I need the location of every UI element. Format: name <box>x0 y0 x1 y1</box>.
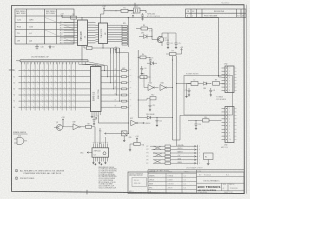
column driver verticals right of U3 <box>104 48 120 102</box>
+5V flag left mid <box>61 117 65 127</box>
wires CN3 to signal rows <box>150 122 155 156</box>
+5V rail for RP2 <box>114 47 129 133</box>
transistor Q1 <box>152 33 169 46</box>
connector CN1 keyboard cable bus <box>16 56 88 62</box>
+5V distribution wire top <box>62 17 219 18</box>
U1 left pins / address bus lines <box>60 21 78 44</box>
wire U3 P27 down <box>97 115 99 123</box>
U3 bottom pins <box>92 112 100 116</box>
transistor Q2 spare <box>54 122 63 131</box>
capacitor C11 <box>148 100 155 111</box>
wire U1 bottom to keyboard bus junction <box>81 46 82 61</box>
resistor R4 <box>138 54 154 59</box>
connector CN2 <box>222 64 237 93</box>
wire crystal to IC2 clock <box>128 11 146 14</box>
U2 right pins to resistor pack RP1 <box>108 25 123 41</box>
capacitor C10 <box>194 120 201 130</box>
U4 top pins <box>93 142 108 148</box>
inverter U5E <box>63 122 86 130</box>
note 1 <box>15 169 65 175</box>
wire net to inverters <box>144 77 145 88</box>
resistor R13 inline <box>84 46 92 50</box>
diode CR5 to ground <box>122 131 132 142</box>
wire rail to U1 pin 1 <box>81 18 83 20</box>
vertical net line C <box>176 56 178 146</box>
resistor pack RP1 pull-ups <box>122 23 128 45</box>
wire to U4 clock <box>94 127 96 144</box>
wire enclosure input <box>176 83 211 98</box>
diode CR2 <box>147 60 157 65</box>
+5V flag at U3 bottom <box>94 115 98 119</box>
wire +5V to R1 <box>104 10 117 11</box>
shield terminal E1 <box>204 153 214 165</box>
key matrix row wires to U3 <box>19 71 91 108</box>
spare gate U5D <box>14 135 27 144</box>
capacitor C7 at U3 bottom <box>92 115 95 125</box>
wire U3 P27 row <box>98 122 129 123</box>
U1 right pins <box>88 23 96 43</box>
title block approvals grid <box>148 169 197 193</box>
spare gates label <box>13 131 28 134</box>
U3 right pins to resistor pack RP2 <box>101 69 122 108</box>
U4 bottom pins with grounds <box>92 157 107 165</box>
capacitor C20 below table <box>35 45 43 50</box>
reference designator table (last used / not used) <box>15 9 74 44</box>
diode CR6 <box>203 82 210 90</box>
revision block (top right) <box>186 3 247 18</box>
fan-out wires CN1 to column verticals <box>85 62 107 67</box>
wire net B to CN3 <box>173 115 222 140</box>
wire U2 clock from crystal <box>101 11 105 23</box>
capacitor C6 <box>140 66 146 75</box>
filter enclosure box <box>184 73 233 115</box>
resistor pack RP2 pull-ups <box>122 68 132 108</box>
wire U2 bottom pin down <box>102 44 103 49</box>
resistor R12 cluster <box>138 95 156 100</box>
resistor R10 near CN3 <box>188 117 222 122</box>
handwritten annotation near CN3 <box>186 167 203 170</box>
resistor R9 <box>213 80 225 86</box>
title block title field <box>197 171 245 183</box>
diode CR1 <box>139 33 152 39</box>
U4 left pin with arrow <box>80 152 92 155</box>
note 2 <box>15 177 35 180</box>
capacitor C9 <box>209 88 215 96</box>
resistor R6 <box>138 74 151 79</box>
matrix row labels <box>13 70 15 109</box>
key switch marks at matrix crossings <box>24 69 75 108</box>
arrow out KBCLK <box>142 122 151 125</box>
connector CN3 <box>221 107 237 150</box>
wire U2 outputs down to column verticals <box>92 48 120 54</box>
IC U2 74HC373 latch <box>99 23 108 44</box>
ground at U3 bottom <box>91 115 94 118</box>
resistor R8 <box>86 123 96 128</box>
crystal Y1 <box>134 6 141 13</box>
capacitor C5 <box>174 41 180 49</box>
capacitor C2 at crystal <box>141 13 144 20</box>
resistor R3 reset <box>136 25 152 32</box>
inverter U5C <box>130 118 142 126</box>
+5V flag and resistor R11 pull-up group <box>129 136 145 151</box>
CN1 pin stubs <box>22 62 86 65</box>
IC U3 8048 keyboard controller <box>91 67 102 112</box>
title block outline <box>128 170 244 194</box>
vertical +5V feed right side <box>218 18 220 76</box>
inverter U5B <box>160 83 171 91</box>
capacitor C4 <box>166 41 172 49</box>
resistor R7 with +5V <box>166 47 184 56</box>
label 74HC132 note <box>147 13 161 18</box>
capacitor C8 <box>185 88 191 96</box>
capacitor C12 on CR4 row <box>155 117 162 126</box>
IC U1 74HC245 buffer <box>78 20 88 46</box>
wire U3 P26 row <box>99 130 129 134</box>
key matrix column wires <box>22 62 76 110</box>
wire +5V rail into CN2 <box>218 75 222 77</box>
wire U4 to net above <box>100 128 106 144</box>
inductor L1 <box>187 80 204 86</box>
title block tolerance cell <box>129 173 147 192</box>
wire R4 output net down <box>149 57 152 82</box>
wire reset net <box>152 29 177 42</box>
title block size and dwg no <box>197 183 245 194</box>
+5V flag at rail start <box>60 13 64 17</box>
inverter U5A <box>144 82 159 91</box>
label TO MAIN BOARD <box>216 95 227 100</box>
+5V flag above R1 <box>102 6 106 10</box>
company logo BUD TRONICS <box>198 183 222 192</box>
IC U4 74HC04 oscillator <box>92 148 109 157</box>
resistor R2 inline on +5V rail <box>71 14 77 19</box>
U2 left pin stubs <box>96 25 99 41</box>
+5V rail feeding RP1 <box>128 13 136 47</box>
diode CR4 row <box>138 114 173 119</box>
vertical net line B <box>171 56 174 140</box>
reference list text block <box>99 167 118 190</box>
fan-out wires CN1 to U3 top pins <box>79 64 98 66</box>
ground below capacitor C20 <box>49 45 55 48</box>
resistor R1 <box>116 7 133 12</box>
drawing border frame <box>9 3 247 195</box>
vertical net line A <box>138 50 139 118</box>
signal rows to off-page arrows <box>147 144 201 165</box>
